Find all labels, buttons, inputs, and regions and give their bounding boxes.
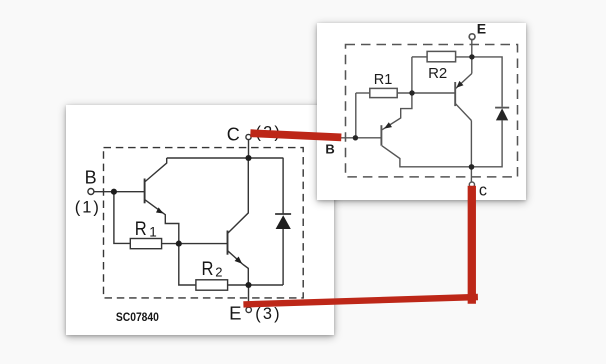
svg-text:B: B: [84, 168, 96, 188]
wire B node down to R1: [114, 192, 130, 244]
wire R1 to mid node / Q2 base: [398, 92, 455, 94]
svg-text:1: 1: [149, 225, 157, 240]
diode D1 anode lead: [282, 229, 284, 285]
svg-text:C: C: [226, 125, 239, 145]
arrow Q1 emitter: [384, 122, 392, 128]
wire mid rail left: [356, 92, 370, 94]
wire E terminal lead: [247, 285, 249, 307]
transistor Q1 collector: [145, 158, 167, 182]
transistor Q2 collector: [456, 104, 472, 121]
wire E terminal lead: [471, 40, 473, 74]
svg-text:R: R: [134, 218, 146, 239]
transistor Q2 emitter: [456, 74, 472, 89]
terminal C: [470, 182, 475, 187]
node dot C junction: [245, 155, 251, 161]
arrow Q2 emitter: [457, 81, 464, 88]
wire B terminal lead: [94, 191, 144, 193]
wire R2 to E node: [227, 284, 248, 286]
wire B lead: [341, 137, 382, 139]
svg-text:(1): (1): [74, 199, 100, 217]
resistor R1: [370, 88, 397, 97]
node dot B junction: [111, 189, 117, 195]
wire mid rail down to B node: [355, 93, 357, 138]
wire Q1 emitter to mid node: [145, 200, 179, 244]
transistor Q2 base bar: [455, 82, 457, 106]
red link wire: panel1 E(3) horizontal run: [243, 297, 478, 304]
resistor R2: [196, 280, 228, 290]
wire top rail left: [412, 56, 427, 58]
wire C vertical: [471, 121, 473, 182]
terminal B (1): [88, 189, 94, 195]
dashed enclosure box: [346, 45, 518, 177]
svg-text:R1: R1: [374, 72, 393, 88]
node dot E junction: [470, 54, 475, 59]
svg-text:E: E: [229, 303, 241, 324]
arrow Q2 emitter: [234, 257, 242, 264]
transistor Q1 base bar: [143, 179, 145, 204]
svg-text:R: R: [201, 258, 213, 279]
diode D1 cathode bar: [275, 213, 291, 215]
svg-text:(3): (3): [255, 305, 282, 323]
terminal E (3): [246, 308, 251, 313]
svg-text:(2): (2): [255, 124, 282, 142]
wire R1 to mid node: [161, 243, 178, 245]
wire mid node to Q2 base: [179, 243, 227, 245]
node dot mid (R1/Q2 base): [176, 241, 182, 247]
transistor Q2 base bar: [226, 231, 228, 255]
svg-text:R2: R2: [428, 65, 447, 82]
red link wire: vertical run up to panel2 C: [468, 186, 476, 304]
panel: Darlington schematic card SC07840: [66, 105, 334, 334]
wire top rail: [166, 157, 283, 159]
wire C terminal to top rail: [247, 140, 249, 158]
wire mid node down to R2: [179, 244, 196, 285]
node dot mid junction: [410, 90, 415, 95]
diode D2 anode lead lower: [472, 120, 503, 166]
node dot B junction: [353, 135, 358, 140]
wire E node to diode top: [472, 57, 502, 107]
node dot E junction: [245, 282, 251, 288]
transistor Q2 emitter: [227, 251, 248, 285]
diode D2 triangle: [496, 108, 508, 120]
diode D2 cathode bar: [495, 107, 509, 109]
svg-text:B: B: [326, 141, 335, 156]
wire R2 branch down to mid rail: [411, 57, 413, 93]
arrow Q1 emitter: [156, 208, 163, 214]
resistor R2: [427, 51, 456, 61]
resistor R1: [130, 239, 161, 249]
transistor Q1 collector to bottom rail: [382, 146, 472, 167]
transistor Q1 emitter (to mid node): [382, 93, 412, 130]
svg-text:2: 2: [215, 265, 222, 280]
panel: mirrored Darlington schematic card: [317, 23, 526, 200]
svg-text:SC07840: SC07840: [116, 310, 159, 324]
node dot C junction: [469, 164, 475, 170]
wire R2 to E node: [456, 56, 472, 58]
transistor Q2 collector: [227, 158, 248, 233]
diode D1 cathode lead: [282, 158, 284, 214]
diode D1 triangle: [275, 216, 290, 230]
wire E node to diode bottom: [248, 284, 283, 286]
svg-text:E: E: [477, 23, 486, 37]
terminal C (2): [246, 135, 251, 140]
dashed enclosure box: [103, 148, 303, 298]
transistor Q1 base bar: [381, 125, 383, 146]
red link wire: panel1 C(2) to panel2 B: [250, 133, 341, 137]
svg-text:c: c: [479, 182, 487, 200]
terminal E: [470, 34, 476, 40]
